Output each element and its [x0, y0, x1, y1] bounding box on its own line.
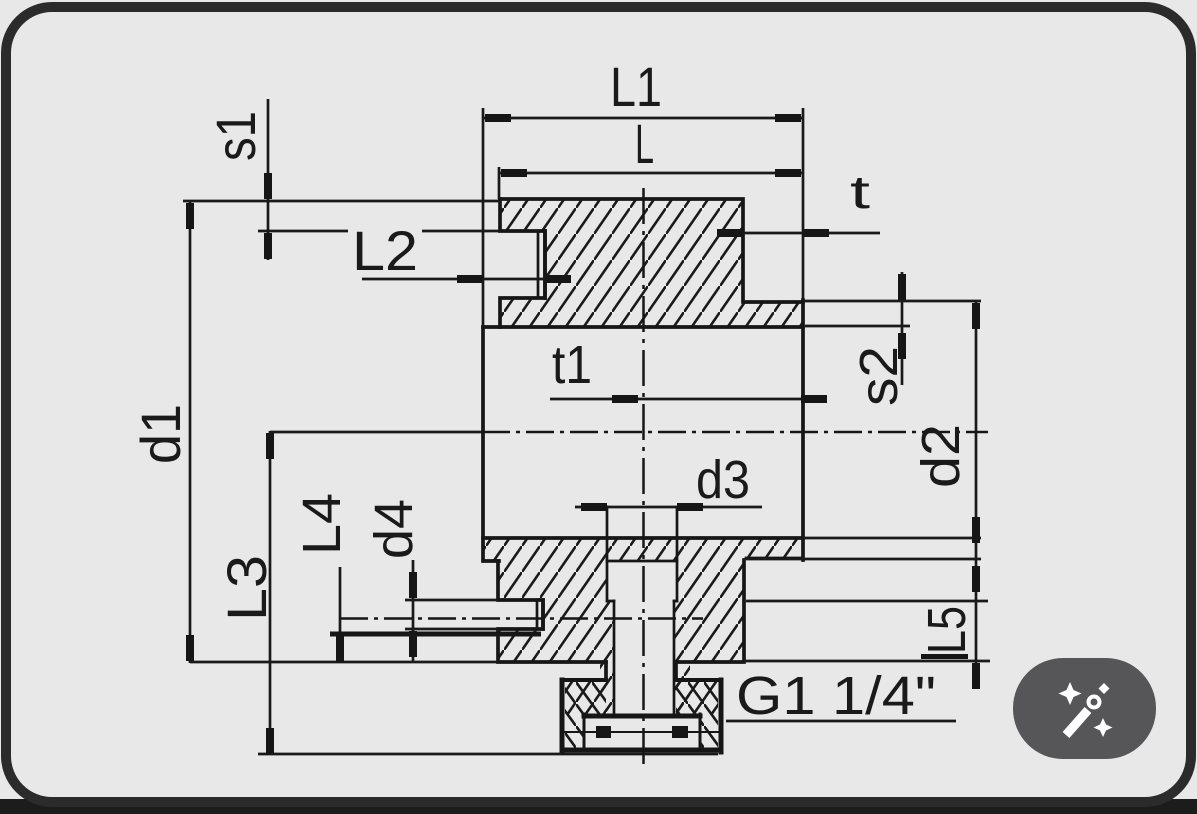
svg-text:L: L: [635, 112, 654, 175]
svg-text:d4: d4: [364, 499, 424, 559]
svg-text:L3: L3: [215, 555, 278, 621]
svg-text:d2: d2: [911, 424, 971, 488]
svg-text:L2: L2: [352, 219, 418, 282]
svg-text:t1: t1: [552, 335, 592, 395]
svg-text:s1: s1: [204, 111, 267, 161]
svg-text:L1: L1: [610, 55, 662, 118]
svg-text:s2: s2: [849, 346, 909, 406]
svg-text:G1 1/4": G1 1/4": [736, 666, 936, 726]
svg-text:d1: d1: [129, 404, 192, 464]
svg-text:t: t: [850, 166, 870, 218]
svg-text:L4: L4: [292, 493, 352, 555]
svg-text:L5: L5: [917, 606, 977, 654]
svg-text:d3: d3: [696, 450, 750, 510]
